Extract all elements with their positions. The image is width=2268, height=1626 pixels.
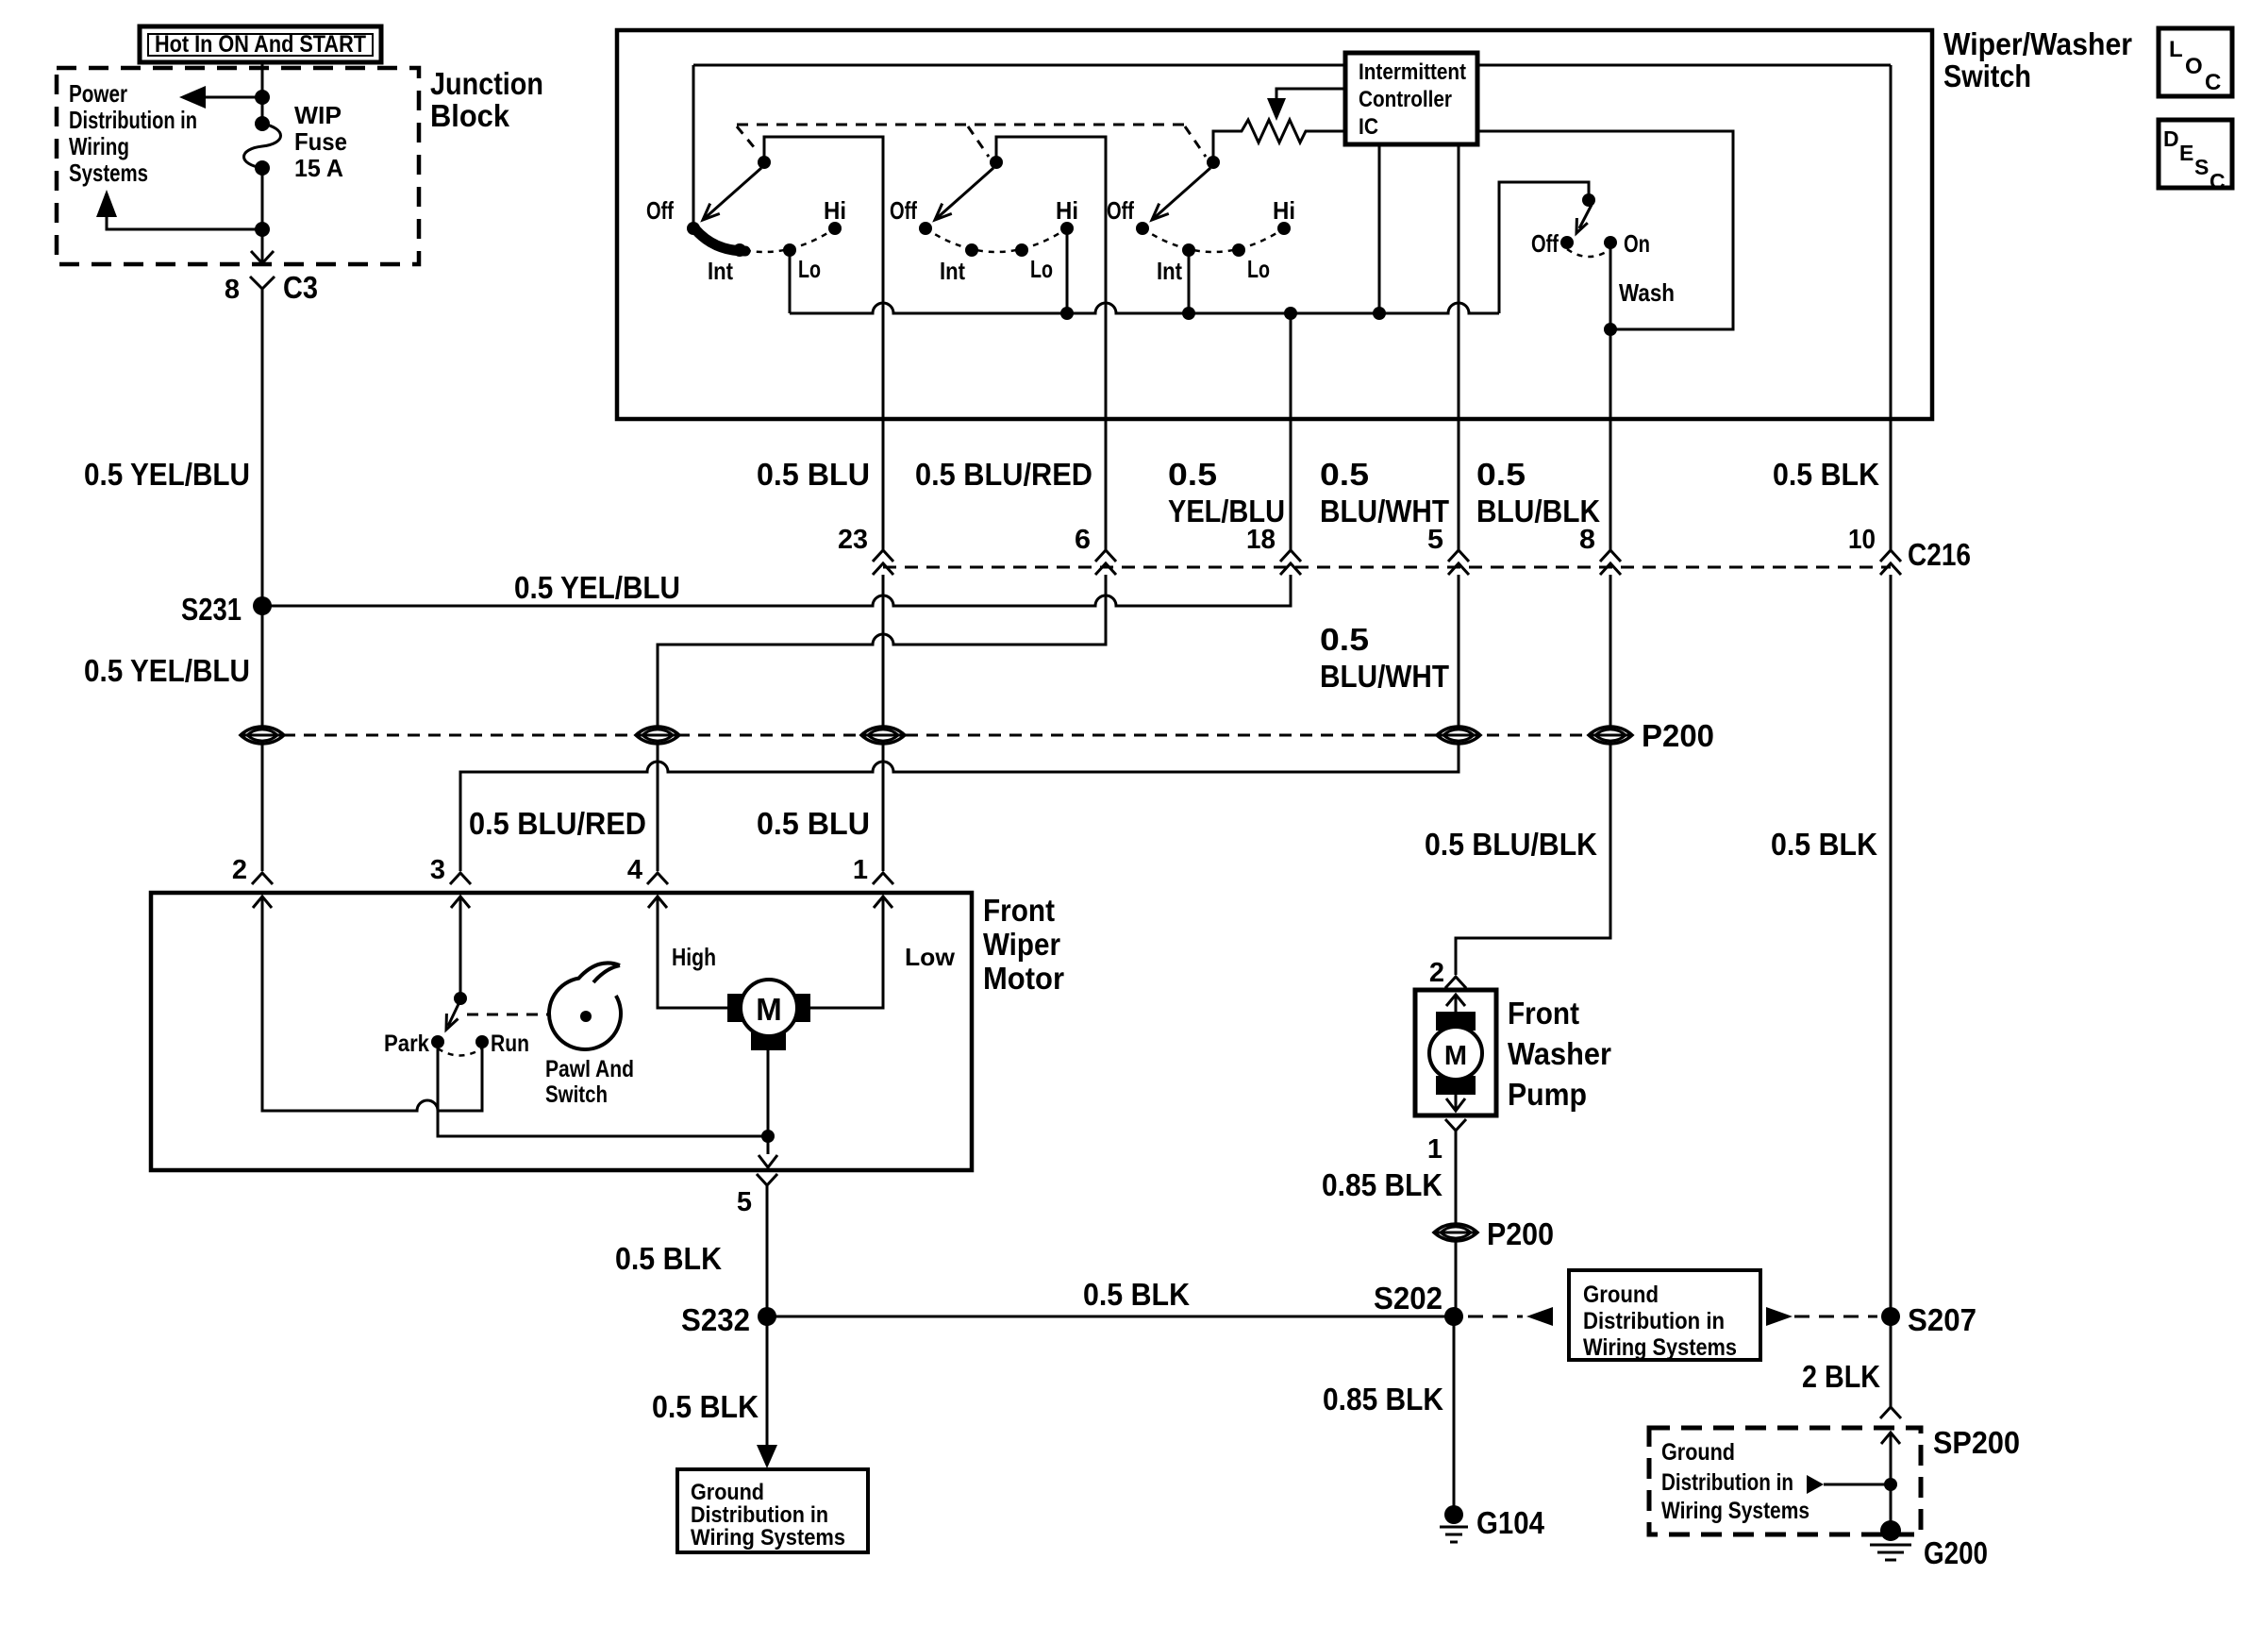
connector P200 lens at x=278 bbox=[241, 727, 284, 744]
wire from Hot box into junction block bbox=[261, 62, 264, 97]
text Ground Distribution in Wiring Systems SP200 bbox=[1661, 1439, 1809, 1524]
svg-text:Controller: Controller bbox=[1359, 87, 1452, 112]
wire into SP200 with chevron bbox=[1881, 1433, 1900, 1531]
front washer pump box bbox=[1415, 990, 1496, 1115]
wire SW3 pivot to resistor bbox=[1213, 131, 1217, 162]
svg-text:BLU/WHT: BLU/WHT bbox=[1320, 659, 1449, 694]
node S232 bbox=[681, 1302, 776, 1337]
svg-text:P200: P200 bbox=[1642, 718, 1714, 753]
wire pin 23 to motor pin 1 bbox=[882, 575, 885, 871]
connector P200 lens at x=697 bbox=[636, 727, 679, 744]
svg-text:Pump: Pump bbox=[1508, 1077, 1587, 1112]
svg-text:E: E bbox=[2179, 141, 2193, 165]
svg-text:Front: Front bbox=[1508, 996, 1579, 1031]
svg-text:18: 18 bbox=[1246, 525, 1276, 555]
connector P200 lens at x=1707 bbox=[1589, 727, 1632, 744]
label Front Washer Pump bbox=[1508, 996, 1611, 1112]
svg-text:Ground: Ground bbox=[691, 1480, 764, 1505]
svg-text:0.5 BLU: 0.5 BLU bbox=[757, 457, 870, 492]
svg-text:Off: Off bbox=[646, 196, 674, 225]
svg-text:0.5 BLU/BLK: 0.5 BLU/BLK bbox=[1425, 827, 1597, 862]
pin 5 at C216 bbox=[1427, 525, 1469, 575]
svg-text:Front: Front bbox=[983, 893, 1055, 928]
svg-text:Hi: Hi bbox=[1056, 196, 1078, 225]
svg-text:Lo: Lo bbox=[1247, 255, 1270, 283]
IC box Intermittent Controller bbox=[1345, 53, 1477, 144]
wire pin 1 to motor right brush bbox=[810, 897, 883, 1008]
svg-text:L: L bbox=[2169, 37, 2183, 62]
text Power Distribution in Wiring Systems bbox=[69, 79, 197, 187]
wire pin 10 to S207 bbox=[1890, 575, 1893, 1407]
svg-text:Int: Int bbox=[708, 257, 733, 285]
ground distribution box middle bbox=[1569, 1270, 1760, 1361]
wire pin 3 to park pivot bbox=[459, 897, 462, 998]
svg-text:0.5 BLK: 0.5 BLK bbox=[652, 1389, 759, 1424]
wire SW1 left vertical bbox=[692, 65, 695, 226]
connector P200 lens at x=936 bbox=[861, 727, 905, 744]
svg-text:Hi: Hi bbox=[1273, 196, 1295, 225]
pin 3 of wiper motor bbox=[430, 855, 471, 908]
svg-text:S231: S231 bbox=[181, 592, 242, 627]
svg-text:S207: S207 bbox=[1908, 1302, 1976, 1337]
svg-text:Distribution in: Distribution in bbox=[1661, 1469, 1793, 1496]
label Junction Block bbox=[430, 66, 543, 133]
svg-text:0.5 BLK: 0.5 BLK bbox=[1773, 457, 1879, 492]
svg-text:0.85 BLK: 0.85 BLK bbox=[1322, 1167, 1443, 1202]
wire pump to G104 bbox=[1455, 1131, 1458, 1316]
ground distribution box bottom left bbox=[677, 1469, 868, 1552]
wire below fuse bbox=[261, 168, 264, 229]
svg-text:8: 8 bbox=[225, 275, 240, 305]
svg-text:Pawl And: Pawl And bbox=[545, 1056, 634, 1082]
svg-text:Wiring Systems: Wiring Systems bbox=[1583, 1334, 1737, 1361]
svg-text:Lo: Lo bbox=[798, 255, 821, 283]
pin 2 of washer pump bbox=[1429, 958, 1466, 988]
wiper washer switch box bbox=[617, 30, 1932, 419]
svg-text:Off: Off bbox=[1107, 196, 1134, 225]
wire S231 to pin 18 bbox=[262, 575, 1291, 606]
switch park/run pivot bbox=[454, 992, 467, 1005]
svg-text:Park: Park bbox=[384, 1031, 429, 1057]
svg-text:M: M bbox=[756, 992, 782, 1027]
wire Park contact to motor common bbox=[438, 1042, 768, 1136]
svg-text:1: 1 bbox=[1427, 1134, 1443, 1165]
svg-text:2 BLK: 2 BLK bbox=[1802, 1359, 1880, 1394]
svg-text:Systems: Systems bbox=[69, 159, 148, 187]
svg-text:0.5 BLU: 0.5 BLU bbox=[757, 806, 870, 841]
wire pin 10 from top line bbox=[1890, 65, 1893, 550]
svg-text:S232: S232 bbox=[681, 1302, 750, 1337]
svg-text:YEL/BLU: YEL/BLU bbox=[1168, 494, 1285, 528]
wire wash loop from IC right bbox=[1477, 131, 1733, 329]
svg-text:Wiper: Wiper bbox=[983, 927, 1060, 962]
svg-text:C: C bbox=[2205, 70, 2221, 95]
wire dashed mechanical linkage bbox=[737, 124, 1185, 126]
label 0.5 BLU/WHT pin 5 below C216 bbox=[1320, 622, 1449, 694]
pump M symbol bbox=[1429, 995, 1482, 1111]
wire S232 to ground distribution bbox=[766, 1316, 769, 1453]
svg-text:0.5 YEL/BLU: 0.5 YEL/BLU bbox=[84, 653, 250, 688]
wire pin 6 to motor pin 4 bbox=[658, 575, 1106, 871]
label 0.5 BLU/BLK pin 8 bbox=[1476, 457, 1600, 528]
svg-text:Wiper/Washer: Wiper/Washer bbox=[1943, 26, 2132, 61]
pin 10 at C216 bbox=[1848, 525, 1901, 575]
svg-text:P200: P200 bbox=[1487, 1216, 1554, 1251]
svg-text:5: 5 bbox=[1427, 525, 1443, 555]
svg-text:Low: Low bbox=[905, 943, 956, 971]
svg-text:Run: Run bbox=[491, 1031, 529, 1057]
fuse WIP 15 A bbox=[244, 101, 348, 182]
label 0.5 BLU/WHT pin 5 bbox=[1320, 457, 1449, 528]
node S231 bbox=[181, 592, 272, 627]
svg-text:Lo: Lo bbox=[1030, 255, 1053, 283]
switch wash contacts bbox=[1531, 229, 1675, 307]
switch SW2 contacts bbox=[890, 196, 1078, 285]
ground G104 bbox=[1440, 1505, 1545, 1542]
svg-text:Wash: Wash bbox=[1619, 278, 1675, 307]
svg-text:6: 6 bbox=[1075, 525, 1091, 555]
switch SW3 wiper arm arrow bbox=[1152, 156, 1220, 220]
svg-text:C3: C3 bbox=[283, 270, 318, 305]
svg-text:Wiring Systems: Wiring Systems bbox=[691, 1525, 845, 1551]
wire SW1 pivot to pin 23 bbox=[764, 137, 883, 550]
svg-text:23: 23 bbox=[838, 525, 868, 555]
connector P200 dashed line bbox=[262, 734, 1610, 737]
svg-text:On: On bbox=[1624, 229, 1650, 258]
ground G200 bbox=[1870, 1520, 1988, 1570]
svg-text:O: O bbox=[2185, 54, 2203, 79]
svg-text:0.5 YEL/BLU: 0.5 YEL/BLU bbox=[84, 457, 250, 492]
svg-text:0.5: 0.5 bbox=[1168, 457, 1217, 492]
svg-text:0.5 BLK: 0.5 BLK bbox=[615, 1241, 722, 1276]
pin 8 at C216 bbox=[1579, 525, 1621, 575]
node bus dot IC bbox=[1373, 307, 1386, 320]
svg-text:0.5 BLU/RED: 0.5 BLU/RED bbox=[915, 457, 1092, 492]
node bus dot pin18 bbox=[1284, 307, 1297, 320]
svg-text:Wiring: Wiring bbox=[69, 132, 129, 160]
svg-text:Ground: Ground bbox=[1661, 1439, 1735, 1466]
svg-text:Int: Int bbox=[1157, 257, 1182, 285]
wire S202 to G104 bbox=[1453, 1316, 1456, 1515]
svg-text:Switch: Switch bbox=[1943, 59, 2031, 93]
wire S232 to S202 bbox=[767, 1316, 1454, 1318]
svg-text:5: 5 bbox=[737, 1187, 752, 1217]
wire exit C3 with down arrow bbox=[251, 229, 274, 263]
svg-text:Switch: Switch bbox=[545, 1081, 608, 1108]
pawl and switch symbol bbox=[545, 963, 634, 1108]
wire pin 18 from bus bbox=[1290, 313, 1292, 550]
svg-text:0.5 BLK: 0.5 BLK bbox=[1771, 827, 1877, 862]
wire dashed S202 to ground dist box bbox=[1468, 1307, 1553, 1326]
wire pin 2 to Run contact bbox=[262, 897, 482, 1111]
label 0.5 YEL/BLU pin 18 bbox=[1168, 457, 1285, 528]
svg-text:C216: C216 bbox=[1908, 537, 1971, 572]
svg-text:0.5 BLK: 0.5 BLK bbox=[1083, 1277, 1190, 1312]
switch wash pivot and wire bbox=[1499, 182, 1595, 313]
node S202 bbox=[1374, 1281, 1463, 1326]
svg-text:G104: G104 bbox=[1476, 1505, 1545, 1540]
wire IC to resistor arrow bbox=[1267, 89, 1345, 121]
svg-text:BLU/WHT: BLU/WHT bbox=[1320, 494, 1449, 528]
wire pin 8 to washer pump bbox=[1456, 575, 1610, 975]
connector P200 lens at x=1546 bbox=[1437, 727, 1480, 744]
svg-text:Int: Int bbox=[940, 257, 965, 285]
svg-text:0.5 BLU/RED: 0.5 BLU/RED bbox=[469, 806, 646, 841]
svg-text:Off: Off bbox=[890, 196, 917, 225]
svg-text:0.85 BLK: 0.85 BLK bbox=[1323, 1382, 1443, 1416]
pin 2 of wiper motor bbox=[232, 855, 273, 908]
label Front Wiper Motor bbox=[983, 893, 1064, 996]
svg-text:D: D bbox=[2163, 126, 2179, 151]
node bus dot Int3 bbox=[1182, 307, 1195, 320]
svg-text:Fuse: Fuse bbox=[294, 127, 347, 156]
label Wiper/Washer Switch bbox=[1943, 26, 2132, 93]
pin 23 at C216 bbox=[838, 525, 893, 575]
svg-text:1: 1 bbox=[853, 855, 868, 885]
node S207 bbox=[1881, 1302, 1976, 1337]
wire IC bottom-left to bus bbox=[1378, 144, 1381, 313]
dashed linkage pivot to pawl bbox=[467, 1014, 548, 1016]
wire SW2 pivot to pin 6 bbox=[996, 137, 1106, 550]
wire dot to fuse bbox=[261, 97, 264, 124]
wire top internal line right bbox=[1477, 64, 1891, 67]
switch SW2 wiper arm arrow bbox=[935, 156, 1003, 220]
resistor intermittent delay bbox=[1213, 120, 1345, 142]
svg-text:Hot In ON And START: Hot In ON And START bbox=[155, 31, 366, 58]
svg-text:G200: G200 bbox=[1924, 1535, 1988, 1570]
svg-text:Intermittent: Intermittent bbox=[1359, 59, 1466, 85]
svg-text:15 A: 15 A bbox=[294, 154, 343, 182]
svg-text:Washer: Washer bbox=[1508, 1036, 1611, 1071]
motor M symbol bbox=[727, 980, 810, 1050]
switch SW1 wiper arm arrow bbox=[703, 156, 771, 220]
wire bus internal common line with hops bbox=[790, 303, 1499, 313]
svg-text:WIP: WIP bbox=[294, 101, 342, 129]
svg-text:Motor: Motor bbox=[983, 961, 1064, 996]
svg-text:Distribution in: Distribution in bbox=[69, 106, 197, 134]
LOC reference box bbox=[2159, 28, 2232, 96]
svg-text:SP200: SP200 bbox=[1933, 1425, 2020, 1460]
svg-text:Hi: Hi bbox=[824, 196, 846, 225]
svg-text:IC: IC bbox=[1359, 114, 1378, 140]
svg-text:0.5: 0.5 bbox=[1476, 457, 1526, 492]
pin 4 of wiper motor bbox=[627, 855, 668, 908]
svg-text:BLU/BLK: BLU/BLK bbox=[1476, 494, 1600, 528]
svg-text:0.5 YEL/BLU: 0.5 YEL/BLU bbox=[514, 570, 680, 605]
pin 6 at C216 bbox=[1075, 525, 1116, 575]
DESC reference box bbox=[2159, 120, 2232, 193]
pin 5 of wiper motor bbox=[737, 1174, 777, 1217]
front wiper motor box bbox=[151, 893, 972, 1170]
wire dashed box to S207 bbox=[1766, 1307, 1877, 1326]
power label box Hot In ON And START bbox=[140, 26, 381, 62]
node branch dot 2 bbox=[255, 222, 270, 237]
svg-text:S: S bbox=[2194, 155, 2209, 179]
svg-text:3: 3 bbox=[430, 855, 445, 885]
wire pin 5 to S232 bbox=[766, 1185, 769, 1316]
svg-text:Ground: Ground bbox=[1583, 1282, 1659, 1308]
svg-text:S202: S202 bbox=[1374, 1281, 1443, 1316]
wire wash On to pin 8 bbox=[1609, 243, 1612, 550]
switch park/run contacts bbox=[384, 1031, 529, 1057]
junction block dashed box bbox=[57, 68, 419, 264]
svg-text:Distribution in: Distribution in bbox=[691, 1502, 828, 1528]
wire branch arrow inside SP200 bbox=[1807, 1475, 1897, 1494]
svg-text:Junction: Junction bbox=[430, 66, 543, 101]
node bus dot Hi2 bbox=[1060, 307, 1074, 320]
wire pin 5 to motor pin 3 bbox=[460, 575, 1459, 871]
svg-text:2: 2 bbox=[1429, 958, 1444, 988]
pin 1 of wiper motor bbox=[853, 855, 893, 908]
wire pin 4 to motor left brush bbox=[658, 897, 727, 1008]
svg-text:0.5: 0.5 bbox=[1320, 457, 1369, 492]
switch SW3 contacts bbox=[1107, 196, 1295, 285]
svg-text:Wiring Systems: Wiring Systems bbox=[1661, 1498, 1809, 1524]
pin 18 at C216 bbox=[1246, 525, 1301, 575]
svg-text:Power: Power bbox=[69, 79, 127, 108]
wire arrow to power distribution bbox=[179, 86, 262, 109]
connector C216 dashed line bbox=[883, 566, 1891, 569]
arrow into ground distribution box bbox=[757, 1445, 777, 1468]
wire branch with up arrow bbox=[96, 190, 262, 229]
wire motor common to pin 5 bbox=[759, 1050, 777, 1167]
node wash loop dot bbox=[1604, 323, 1617, 336]
connector chevron into SP200 bbox=[1880, 1407, 1901, 1418]
svg-text:4: 4 bbox=[627, 855, 642, 885]
svg-text:Block: Block bbox=[430, 98, 510, 133]
wire C3 down to motor pin 2 bbox=[261, 289, 264, 871]
connector P200 inline lens bbox=[1434, 1216, 1554, 1251]
connector C3 pin 8 bbox=[225, 270, 318, 305]
wire SW3 Int to bus bbox=[1188, 250, 1191, 313]
svg-text:Off: Off bbox=[1531, 229, 1559, 258]
svg-text:10: 10 bbox=[1848, 525, 1876, 555]
svg-text:C: C bbox=[2210, 169, 2226, 193]
svg-text:High: High bbox=[672, 943, 716, 971]
switch park/run arm arrow bbox=[446, 1004, 459, 1030]
node branch dot bbox=[255, 90, 270, 105]
wire SW2 Hi to bus bbox=[1066, 228, 1069, 313]
pin 1 of washer pump bbox=[1427, 1119, 1466, 1165]
wire top internal line left bbox=[693, 64, 1345, 67]
SP200 dashed box bbox=[1649, 1428, 1921, 1534]
wire IC bottom-right to pin 5 bbox=[1458, 144, 1460, 550]
svg-text:M: M bbox=[1444, 1041, 1467, 1071]
wire SW1 Lo to bus bbox=[789, 250, 792, 313]
switch SW1 contacts bbox=[646, 196, 846, 285]
svg-text:Distribution in: Distribution in bbox=[1583, 1308, 1725, 1334]
svg-text:0.5: 0.5 bbox=[1320, 622, 1369, 657]
svg-text:2: 2 bbox=[232, 855, 247, 885]
switch wash arm arrow bbox=[1576, 205, 1592, 233]
svg-text:8: 8 bbox=[1579, 525, 1595, 555]
